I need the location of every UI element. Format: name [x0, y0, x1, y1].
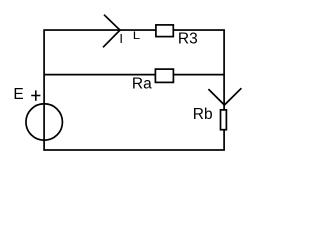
svg-text:Rb: Rb [193, 106, 213, 123]
svg-text:Ra: Ra [132, 76, 152, 93]
resistor R3 [156, 25, 173, 37]
wire outer loop [44, 30, 224, 150]
current arrow into Rb [208, 88, 241, 105]
resistor Ra [155, 69, 173, 82]
svg-text:R3: R3 [178, 30, 198, 47]
wire middle branch [44, 74, 224, 76]
svg-text:L: L [133, 30, 140, 42]
voltage source E circle [26, 104, 63, 141]
svg-text:I: I [119, 31, 123, 46]
plus sign of source [31, 90, 40, 100]
svg-text:E: E [13, 86, 23, 103]
resistor Rb [221, 110, 227, 130]
current arrow I on top wire [103, 15, 120, 48]
